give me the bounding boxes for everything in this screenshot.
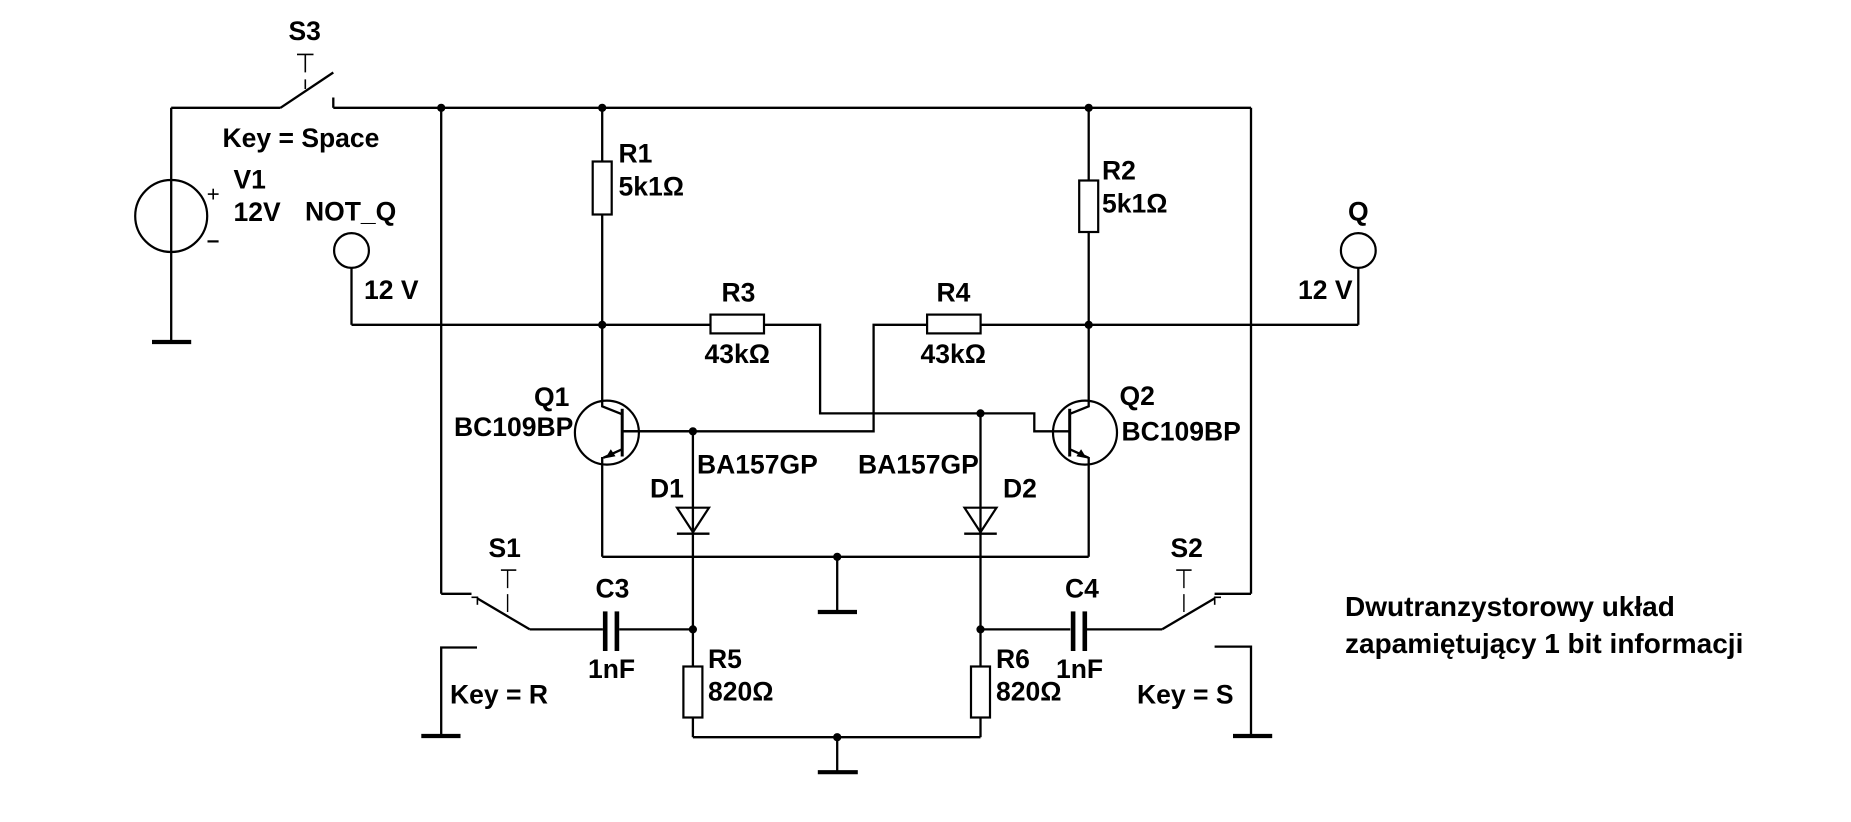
wire junction to C4 xyxy=(981,628,1071,630)
ground under S2 xyxy=(1233,734,1272,738)
svg-text:Q1: Q1 xyxy=(534,382,569,412)
ground under V1 xyxy=(152,340,191,344)
svg-text:C3: C3 xyxy=(596,574,630,604)
svg-text:1nF: 1nF xyxy=(1056,654,1103,684)
diode D2 xyxy=(964,413,997,629)
wire bottom rail xyxy=(693,736,981,738)
ground under S1 xyxy=(421,734,460,738)
switch S1 actuator xyxy=(501,570,516,612)
junction D2 top xyxy=(976,409,984,417)
switch S3 right contact stub xyxy=(332,98,334,108)
switch S2 lever xyxy=(1162,598,1214,629)
junction emitter rail center xyxy=(833,553,841,561)
transistor Q2 xyxy=(1053,325,1117,557)
wire NOT_Q down xyxy=(350,268,352,325)
wire Q1 base lead xyxy=(622,430,693,432)
svg-text:S2: S2 xyxy=(1171,533,1203,563)
svg-text:R3: R3 xyxy=(722,278,756,308)
junction C4/R6/D2 xyxy=(976,625,984,633)
svg-text:Key = Space: Key = Space xyxy=(223,123,380,153)
capacitor C3 xyxy=(605,611,617,651)
ground bottom xyxy=(818,737,858,772)
wire S1 to C3 xyxy=(530,628,603,630)
svg-text:V1: V1 xyxy=(234,165,266,195)
svg-text:5k1Ω: 5k1Ω xyxy=(1102,189,1167,219)
svg-text:BA157GP: BA157GP xyxy=(858,450,979,480)
wire left vertical xyxy=(440,108,442,594)
svg-text:Key = R: Key = R xyxy=(450,680,548,710)
node Q terminal xyxy=(1341,233,1376,268)
wire mid-right rail xyxy=(981,324,1359,326)
wire emitter rail xyxy=(602,556,1088,558)
ground center (emitter) xyxy=(818,557,857,612)
svg-text:S1: S1 xyxy=(489,533,521,563)
junction C3/R5/D1 xyxy=(689,625,697,633)
svg-text:BA157GP: BA157GP xyxy=(697,450,818,480)
svg-text:BC109BP: BC109BP xyxy=(454,412,573,442)
svg-text:Q: Q xyxy=(1348,197,1369,227)
switch S2 pivot tick xyxy=(1215,597,1222,605)
junction R2 bottom xyxy=(1085,321,1093,329)
source V1 xyxy=(135,108,218,340)
wire R3 to Q2 base xyxy=(764,325,1070,432)
resistor R6 xyxy=(971,629,990,737)
svg-text:R2: R2 xyxy=(1102,156,1136,186)
junction R1 bottom xyxy=(598,321,606,329)
resistor R1 xyxy=(593,108,612,325)
svg-text:D2: D2 xyxy=(1003,474,1037,504)
wire Q down xyxy=(1357,268,1359,325)
wire right vertical xyxy=(1250,108,1252,594)
svg-text:Dwutranzystorowy układ: Dwutranzystorowy układ xyxy=(1345,591,1675,622)
svg-text:820Ω: 820Ω xyxy=(996,677,1061,707)
svg-text:12 V: 12 V xyxy=(1298,275,1353,305)
switch S1 pivot tick xyxy=(472,597,479,605)
svg-text:12 V: 12 V xyxy=(364,275,419,305)
svg-text:zapamiętujący 1 bit informacji: zapamiętujący 1 bit informacji xyxy=(1345,628,1743,659)
switch S1 lever xyxy=(477,598,529,629)
resistor R2 xyxy=(1079,108,1098,325)
wire C4 to S2 xyxy=(1087,628,1162,630)
junction top-left xyxy=(437,104,445,112)
switch S3 lever xyxy=(281,73,334,108)
svg-text:D1: D1 xyxy=(650,474,684,504)
svg-text:BC109BP: BC109BP xyxy=(1122,417,1241,447)
junction D1 top xyxy=(689,427,697,435)
svg-text:C4: C4 xyxy=(1065,574,1099,604)
svg-text:R5: R5 xyxy=(708,644,742,674)
junction R1 top xyxy=(598,104,606,112)
resistor R3 xyxy=(711,315,765,334)
svg-text:43kΩ: 43kΩ xyxy=(921,339,986,369)
resistor R4 xyxy=(927,315,981,334)
junction R2 top xyxy=(1085,104,1093,112)
transistor Q1 xyxy=(575,325,639,557)
svg-text:S3: S3 xyxy=(289,16,321,46)
svg-text:NOT_Q: NOT_Q xyxy=(305,197,396,227)
svg-text:43kΩ: 43kΩ xyxy=(705,339,770,369)
svg-text:Key = S: Key = S xyxy=(1137,680,1234,710)
svg-text:5k1Ω: 5k1Ω xyxy=(619,172,684,202)
node NOT_Q terminal xyxy=(334,233,369,268)
wire top rail xyxy=(333,107,1251,109)
switch S1 bottom throw to ground xyxy=(441,648,477,735)
wire V1 to S3 xyxy=(171,107,280,109)
switch S2 bottom throw to ground xyxy=(1215,647,1251,734)
svg-text:Q2: Q2 xyxy=(1120,381,1155,411)
switch S1 top throw wire xyxy=(441,593,471,595)
wire Q1 base to R4 xyxy=(622,325,927,432)
switch S2 top throw wire xyxy=(1215,593,1251,595)
wire C3 to junction xyxy=(619,628,693,630)
diode D1 xyxy=(677,431,710,629)
wire mid-left rail xyxy=(352,324,711,326)
junction bottom rail center xyxy=(833,733,841,741)
svg-text:R6: R6 xyxy=(996,644,1030,674)
svg-text:820Ω: 820Ω xyxy=(708,677,773,707)
svg-text:1nF: 1nF xyxy=(588,654,635,684)
resistor R5 xyxy=(683,629,702,737)
switch S3 actuator xyxy=(297,54,314,89)
svg-text:R4: R4 xyxy=(937,278,971,308)
svg-text:12V: 12V xyxy=(234,197,281,227)
switch S2 actuator xyxy=(1176,570,1191,612)
svg-text:R1: R1 xyxy=(619,139,653,169)
capacitor C4 xyxy=(1073,611,1085,651)
